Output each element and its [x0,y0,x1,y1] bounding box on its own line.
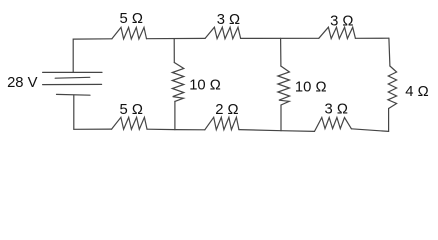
resistor R 10ohm branch1 [172,63,184,102]
battery B1 plate short 2 [57,93,91,96]
svg-text:3 Ω: 3 Ω [217,12,240,28]
svg-text:5 Ω: 5 Ω [119,11,142,27]
resistor R 5ohm top [112,27,147,39]
wire right rail top: top-right corner down to 4-ohm entry [389,38,390,66]
svg-text:5 Ω: 5 Ω [119,102,142,118]
wire battery bottom stub [73,95,75,129]
battery B1 plate long 2 [43,83,102,85]
resistor R 3ohm top-right [319,27,356,38]
wire top seg4 [355,37,389,39]
battery B1 plate short 1 [55,76,90,79]
svg-text:4 Ω: 4 Ω [405,84,428,100]
wire branch2 bottom stub [280,105,282,131]
wire bottom rail seg2 [147,128,205,131]
wire bottom rail seg4 [351,129,388,132]
resistor R 3ohm bottom [315,118,352,132]
wire bottom rail seg3 [239,130,315,132]
wire top rail: battery top to top-left corner then top wire to top-right corner [73,39,112,73]
wire bottom rail left [74,128,112,130]
battery B1 top plate long [43,71,102,73]
svg-text:10 Ω: 10 Ω [295,80,327,96]
wire right rail bottom: 4-ohm exit down to bottom-right corner [388,109,390,132]
resistor R 5ohm bottom [112,117,147,129]
svg-text:28 V: 28 V [7,75,38,91]
resistor R 4ohm right [388,66,397,109]
wire top seg2 [147,37,206,39]
wire branch1 top stub [173,39,175,63]
svg-text:3 Ω: 3 Ω [324,102,347,118]
resistor R 2ohm bottom [205,117,239,130]
wire branch1 bottom stub [174,101,176,129]
resistor R 3ohm top-middle [205,27,241,39]
wire branch2 top stub [280,38,282,66]
svg-text:2 Ω: 2 Ω [215,102,238,118]
svg-text:3 Ω: 3 Ω [330,14,353,30]
resistor R 10ohm branch2 [278,66,290,105]
svg-text:10 Ω: 10 Ω [189,78,221,94]
wire top seg3 [241,37,319,39]
